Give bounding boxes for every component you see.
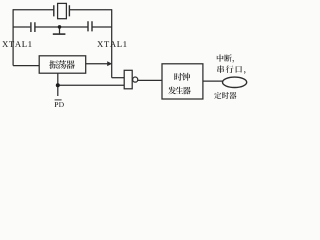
label XTAL1 right <box>97 41 126 47</box>
wire: oscillator output <box>86 63 108 65</box>
label PD <box>55 102 64 107</box>
clock generator box U3 <box>162 64 203 99</box>
label generator 发生器 <box>168 87 190 95</box>
wire: XTAL1 into oscillator box <box>13 65 39 67</box>
label interrupt 中断 <box>217 54 234 62</box>
wire: capacitor row left segment <box>13 26 30 28</box>
oscillator output arrowhead <box>107 61 112 66</box>
oscillator box U1 <box>39 56 85 73</box>
ellipse bus symbol <box>223 77 247 87</box>
capacitor C1 plates <box>31 22 35 32</box>
wire: capacitor row right segment <box>93 26 112 28</box>
label clock 时钟 <box>174 73 190 81</box>
wire: PD net to gate lower input <box>58 84 124 86</box>
wire: top net segment right of crystal <box>69 9 111 11</box>
capacitor C2 plates <box>88 21 92 31</box>
wire: ground stub <box>59 27 61 34</box>
junction dot ground node <box>58 25 62 29</box>
wire: left vertical XTAL1 pin wire <box>12 9 14 65</box>
wire: oscillator bottom to PD node <box>57 73 59 96</box>
wire: capacitor row middle segment <box>35 26 87 28</box>
wire: gate output to clock generator <box>138 79 162 81</box>
wire: clock generator output <box>203 80 223 82</box>
junction dot PD node <box>56 83 60 87</box>
label XTAL1 left <box>2 41 31 47</box>
label oscillator 振荡器 <box>49 60 75 69</box>
ground bar <box>53 33 66 35</box>
wire: into gate top input <box>112 77 125 79</box>
crystal Y1 plates <box>54 5 70 16</box>
NAND gate U2 inversion bubble <box>133 77 138 82</box>
PD overline <box>55 99 62 101</box>
label serial port 串行口 <box>217 65 245 74</box>
wire: top XTAL2 net segment left of crystal <box>13 9 54 11</box>
label timer 定时器 <box>214 92 236 99</box>
NAND gate U2 body <box>124 70 132 89</box>
wire: right vertical XTAL2 pin wire <box>111 9 113 78</box>
crystal Y1 body rect <box>58 3 67 18</box>
